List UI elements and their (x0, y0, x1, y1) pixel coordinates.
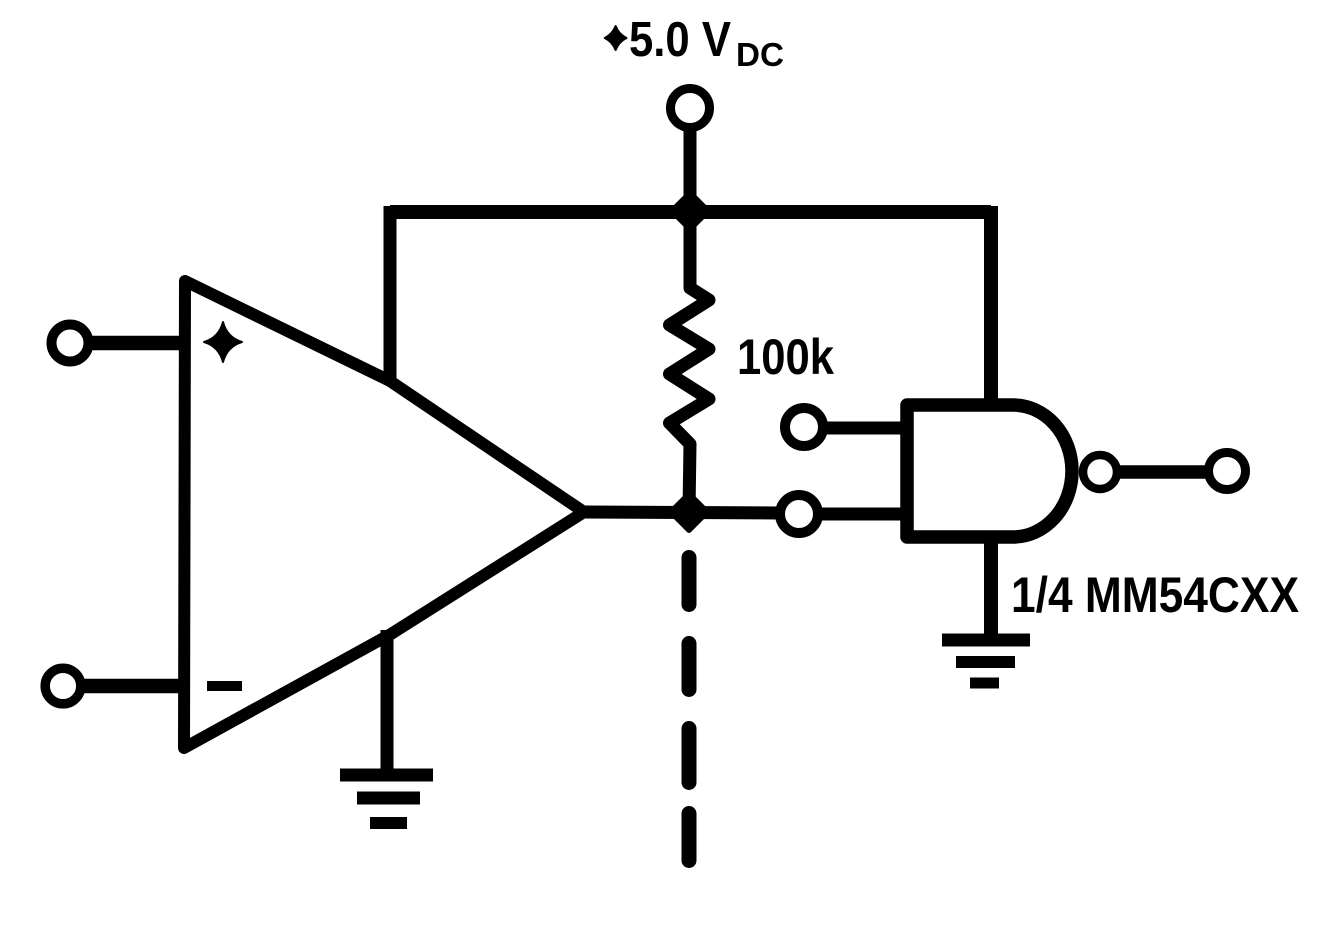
wire top rail (390, 205, 991, 219)
resistor R1 100k (670, 211, 710, 511)
terminal gate input A (open circle) (785, 408, 823, 446)
svg-text:DC: DC (736, 36, 784, 73)
gate U2 NAND body (907, 405, 1072, 537)
wire VDC terminal to junction (684, 127, 697, 200)
node output junction (filled dot) (671, 494, 708, 531)
ground (op-amp) (340, 775, 433, 823)
wire rail left drop to op-amp top edge (384, 206, 397, 384)
wire op-amp output to junction and circle (584, 512, 778, 513)
wire rail right drop to gate top (984, 206, 998, 404)
wire gate input A (823, 422, 903, 435)
dashed threshold line (682, 558, 697, 861)
terminal IN- (open circle) (45, 668, 81, 704)
wire mid circle to gate input B (818, 508, 903, 521)
svg-text:1/4 MM54CXX: 1/4 MM54CXX (1011, 567, 1299, 623)
wire IN+ to op-amp (88, 336, 188, 351)
wire IN- to op-amp (81, 679, 188, 694)
wire gate bottom to ground (984, 537, 998, 640)
node mid (open circle on output wire) (780, 495, 818, 533)
op-amp - input marker (207, 681, 242, 691)
node V+ junction (filled dot) (672, 193, 709, 230)
wire gate output (1117, 465, 1208, 479)
terminal IN+ (open circle) (52, 325, 89, 362)
op-amp U1 (comparator triangle) (184, 281, 584, 748)
terminal VDC (open circle) (671, 89, 710, 128)
svg-text:5.0 V: 5.0 V (629, 13, 731, 67)
terminal OUT (open circle) (1209, 453, 1246, 490)
wire op-amp bottom edge to ground (381, 630, 394, 775)
gate inverter bubble (1083, 455, 1117, 489)
ground (gate) (942, 640, 1030, 683)
svg-text:100k: 100k (737, 329, 834, 385)
label +5.0 VDC (605, 13, 784, 73)
op-amp + input marker (204, 322, 242, 362)
